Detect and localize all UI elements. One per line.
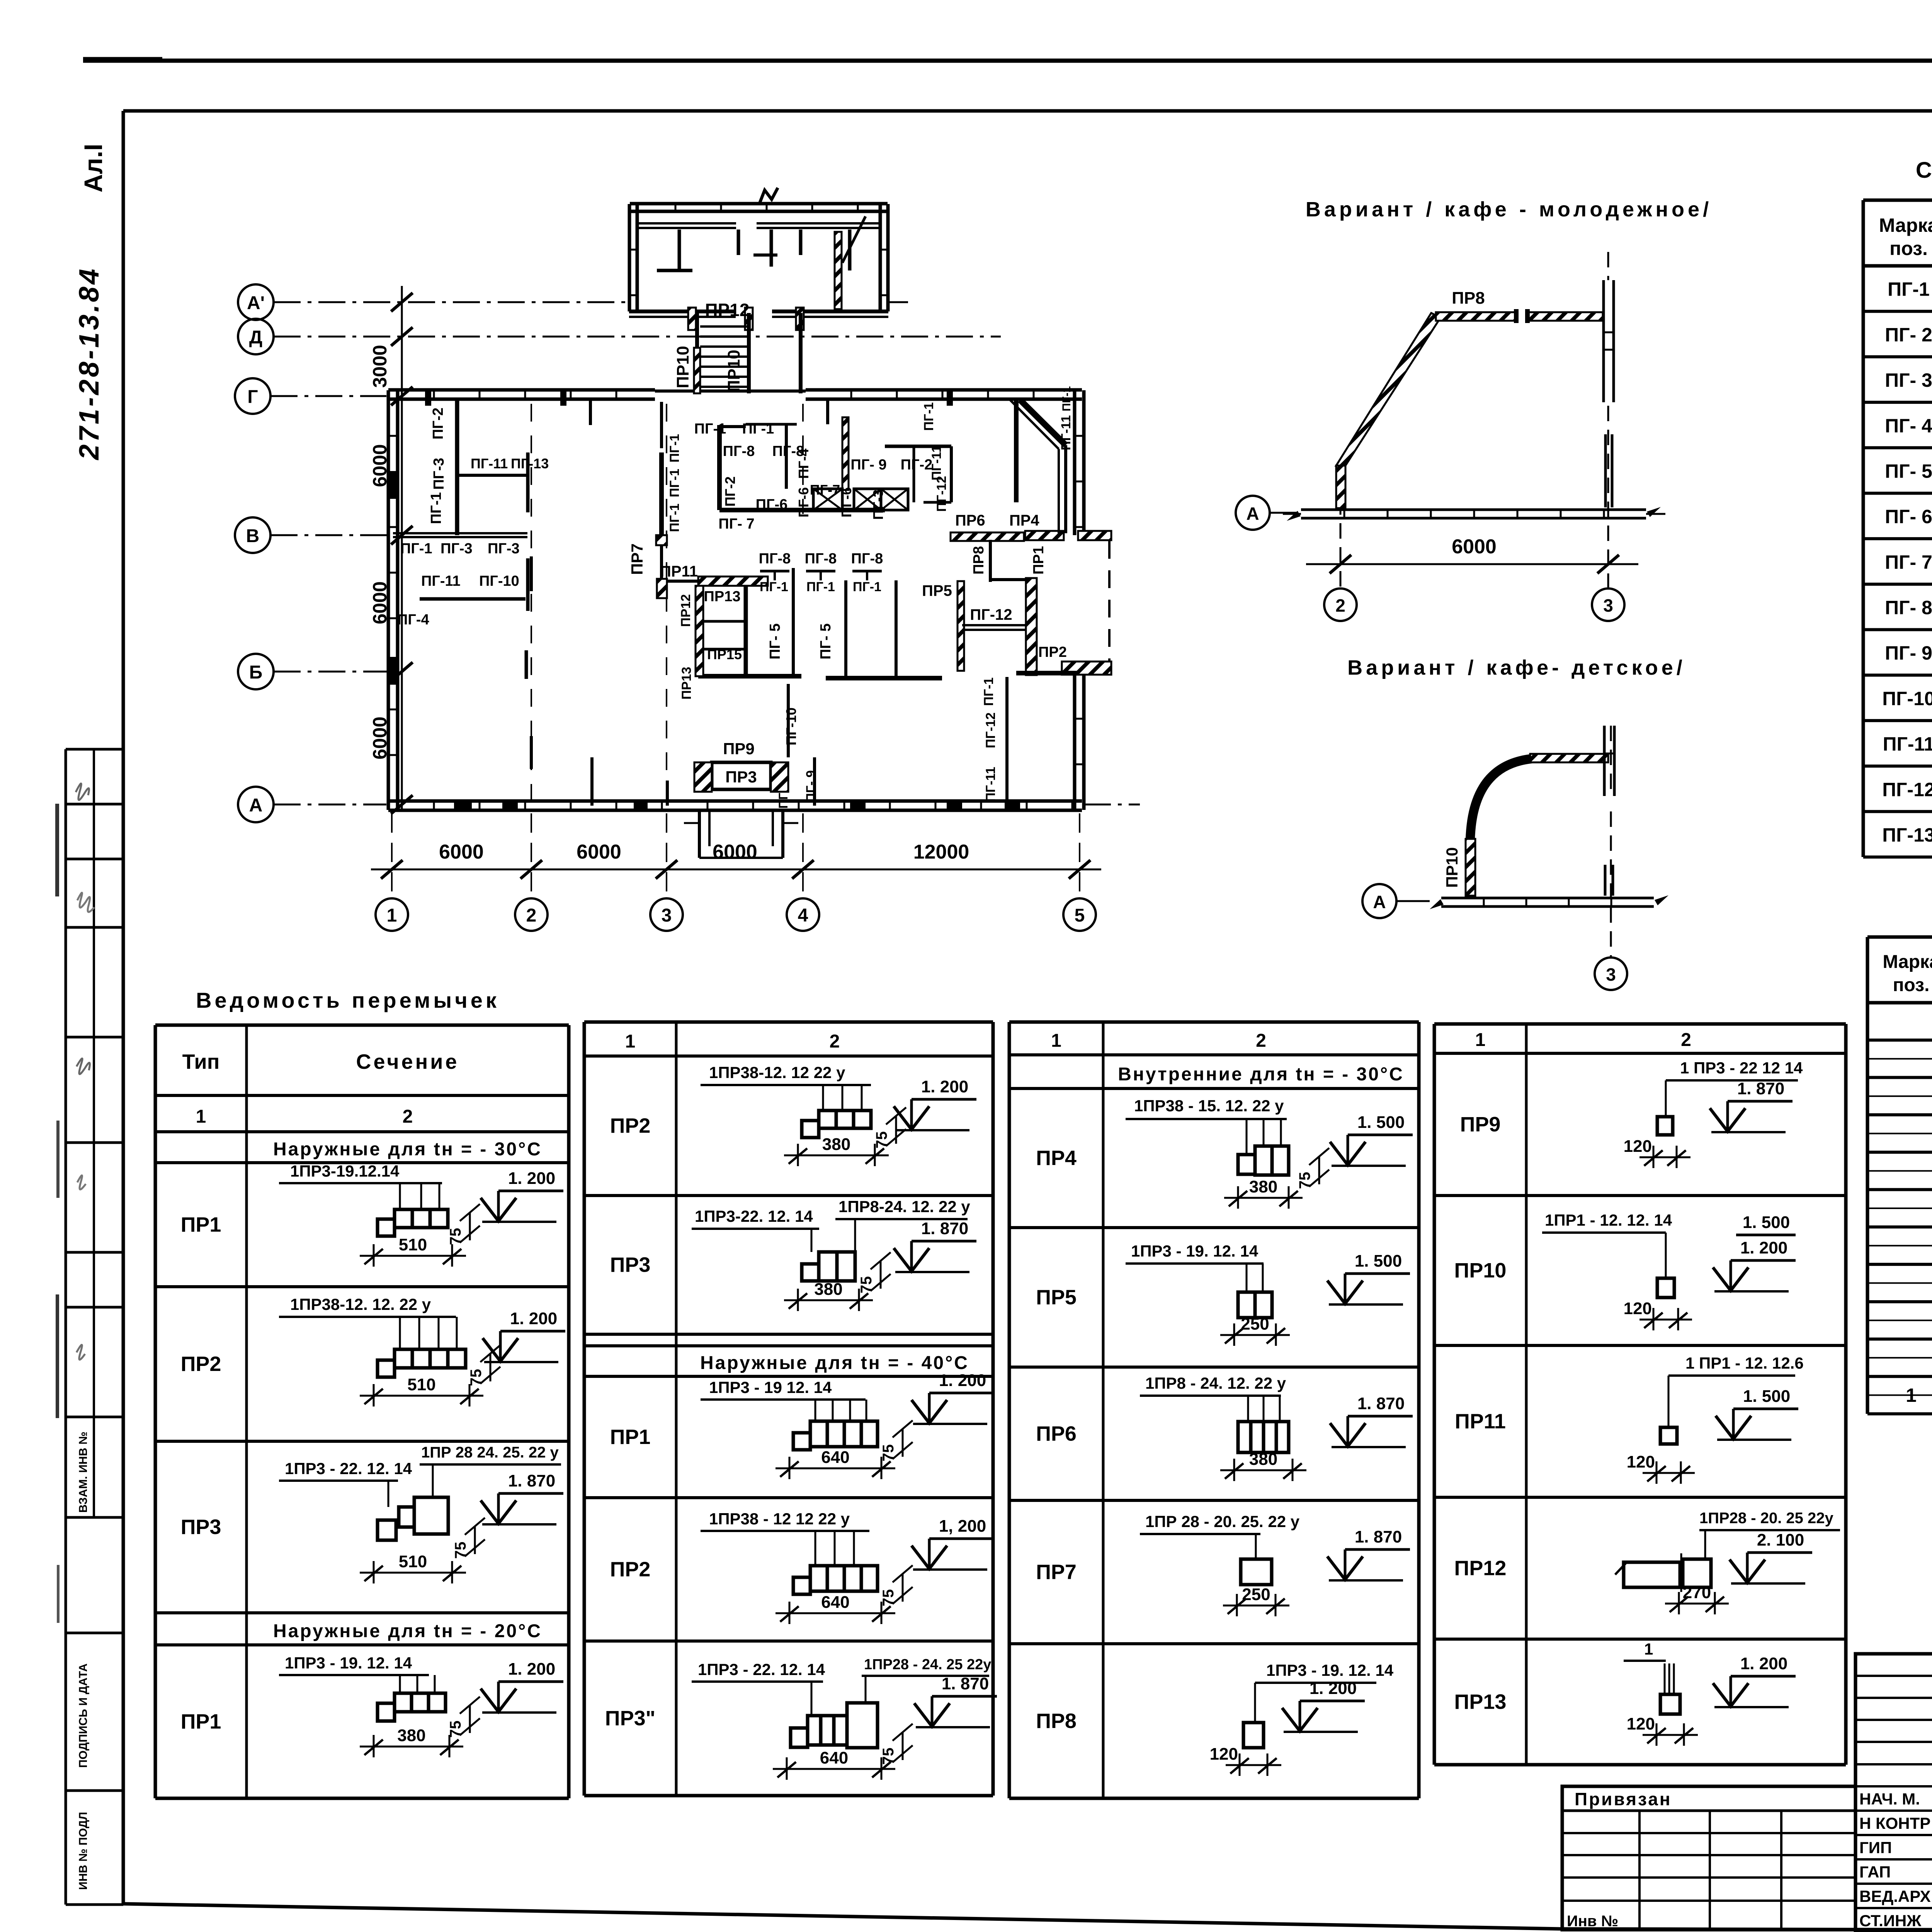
svg-text:ПР3: ПР3: [725, 768, 757, 786]
svg-text:ПГ-1: ПГ-1: [400, 541, 432, 557]
svg-text:Наружные для tн = - 40°С: Наружные для tн = - 40°С: [700, 1353, 969, 1373]
svg-text:ПР13: ПР13: [704, 588, 741, 605]
svg-text:ПР13: ПР13: [1454, 1690, 1507, 1714]
tee door lintels: [760, 570, 789, 573]
svg-text:ПГ- 9: ПГ- 9: [850, 457, 886, 473]
svg-text:640: 640: [821, 1593, 849, 1612]
svg-text:510: 510: [399, 1235, 427, 1254]
svg-text:ПГ-1: ПГ-1: [760, 580, 788, 594]
svg-text:ПГ- 5: ПГ- 5: [767, 623, 783, 659]
svg-text:2. 100: 2. 100: [1757, 1531, 1804, 1549]
svg-text:1: 1: [1906, 1384, 1917, 1406]
small top room near bump: [989, 540, 992, 582]
svg-text:ПР3: ПР3: [610, 1253, 651, 1277]
plan interior: left hall: [455, 399, 459, 535]
svg-text:2: 2: [1681, 1030, 1691, 1050]
svg-text:75: 75: [880, 1748, 897, 1765]
annex corridor wall: [638, 222, 736, 224]
svg-text:ПГ-1: ПГ-1: [806, 580, 835, 594]
svg-text:Марка: Марка: [1883, 952, 1932, 972]
svg-text:1ПР38-12. 12 22 у: 1ПР38-12. 12 22 у: [709, 1063, 845, 1082]
svg-text:Наружные для tн = - 20°С: Наружные для tн = - 20°С: [273, 1621, 542, 1641]
svg-text:ПР8: ПР8: [971, 546, 987, 575]
svg-text:250: 250: [1242, 1585, 1270, 1604]
svg-text:ПГ-10: ПГ-10: [783, 707, 799, 745]
svg-text:Сечение: Сечение: [356, 1050, 459, 1073]
C ПР5 section: [1238, 1292, 1255, 1318]
svg-text:ПР1: ПР1: [181, 1710, 221, 1733]
svg-text:ПР7: ПР7: [628, 543, 646, 575]
svg-text:ИНВ № ПОДЛ: ИНВ № ПОДЛ: [77, 1812, 90, 1890]
column circle 2: [515, 898, 548, 931]
svg-text:ПГ- 2: ПГ- 2: [1885, 324, 1932, 345]
svg-text:1. 500: 1. 500: [1357, 1113, 1405, 1132]
top-right diagonal corner: [1020, 400, 1066, 445]
column circle 5: [1063, 898, 1096, 931]
svg-text:1: 1: [196, 1107, 206, 1127]
svg-text:ПГ-6: ПГ-6: [796, 487, 811, 517]
svg-text:3000: 3000: [369, 345, 391, 388]
svg-text:ПР10: ПР10: [1443, 847, 1461, 888]
corridor horizontal wall (hatched): [698, 577, 768, 586]
svg-text:1. 870: 1. 870: [1355, 1527, 1402, 1546]
svg-text:1ПР8 - 24. 12. 22 у: 1ПР8 - 24. 12. 22 у: [1145, 1374, 1286, 1392]
B ПР1 section -40: [793, 1433, 810, 1450]
axis circle А: [238, 787, 274, 822]
svg-text:ПОДПИСЬ И ДАТА: ПОДПИСЬ И ДАТА: [77, 1663, 90, 1768]
svg-text:ПР12: ПР12: [679, 594, 693, 627]
svg-text:А: А: [249, 795, 263, 816]
axis circle Д: [238, 319, 274, 354]
svg-text:ПГ-2: ПГ-2: [901, 457, 933, 473]
svg-text:4: 4: [798, 905, 808, 926]
svg-text:1ПР3 - 22. 12. 14: 1ПР3 - 22. 12. 14: [698, 1660, 825, 1679]
svg-text:ПР12: ПР12: [1454, 1557, 1507, 1580]
svg-text:1ПР8-24. 12. 22 у: 1ПР8-24. 12. 22 у: [838, 1197, 970, 1216]
svg-text:640: 640: [821, 1448, 849, 1467]
svg-text:ПГ-4: ПГ-4: [796, 449, 811, 479]
axis circle Г: [235, 378, 270, 414]
svg-text:ПГ- 5: ПГ- 5: [818, 623, 834, 659]
svg-text:1ПР 28 24. 25. 22 у: 1ПР 28 24. 25. 22 у: [421, 1444, 559, 1461]
svg-text:ПР5: ПР5: [922, 582, 952, 599]
svg-text:ПГ-8: ПГ-8: [759, 551, 791, 567]
svg-text:1ПР3 - 19 12. 14: 1ПР3 - 19 12. 14: [709, 1378, 832, 1396]
axis circle В: [235, 517, 270, 553]
svg-text:1: 1: [387, 905, 397, 926]
svg-text:Б: Б: [249, 662, 263, 683]
svg-text:ПР1: ПР1: [1031, 546, 1047, 575]
svg-text:ПГ- 8: ПГ- 8: [1885, 597, 1932, 619]
svg-text:1. 200: 1. 200: [510, 1309, 557, 1328]
svg-text:ВЗАМ. ИНВ №: ВЗАМ. ИНВ №: [77, 1432, 90, 1513]
svg-text:ПР1: ПР1: [181, 1213, 221, 1236]
svg-text:2: 2: [1335, 595, 1345, 616]
extra wall stubs: [530, 556, 533, 591]
column circle 4: [787, 898, 819, 931]
svg-text:1. 500: 1. 500: [1743, 1387, 1790, 1406]
svg-text:ПР2: ПР2: [610, 1558, 651, 1581]
svg-text:271-28-13.84: 271-28-13.84: [74, 267, 105, 461]
svg-text:ПГ-2: ПГ-2: [430, 408, 446, 440]
svg-text:ПГ-3: ПГ-3: [431, 458, 447, 490]
svg-text:75: 75: [468, 1369, 485, 1386]
svg-text:СТ.ИНЖ: СТ.ИНЖ: [1859, 1912, 1922, 1930]
svg-text:12000: 12000: [913, 841, 969, 863]
svg-text:ПГ- 9: ПГ- 9: [1885, 642, 1932, 664]
svg-text:ПГ-2: ПГ-2: [722, 476, 738, 507]
svg-text:1ПР3-19.12.14: 1ПР3-19.12.14: [290, 1162, 400, 1180]
svg-text:ПР8: ПР8: [1036, 1709, 1077, 1733]
svg-text:ПГ-12: ПГ-12: [970, 606, 1012, 623]
svg-text:250: 250: [1241, 1315, 1269, 1333]
svg-text:ПГ-13: ПГ-13: [511, 456, 549, 471]
ведомость sub-table 4 grid: [1434, 1022, 1846, 1026]
svg-text:1. 200: 1. 200: [508, 1660, 555, 1679]
ведомость sub-table 1 grid: [155, 1024, 569, 1027]
svg-text:поз.: поз.: [1889, 238, 1928, 259]
svg-text:1. 200: 1. 200: [921, 1077, 968, 1096]
svg-text:ПГ-11: ПГ-11: [471, 456, 508, 471]
svg-text:1. 200: 1. 200: [939, 1371, 986, 1390]
svg-text:ПР6: ПР6: [955, 512, 985, 529]
small room with ПР13/ПР15: [696, 586, 703, 676]
ПР1 section -30: [378, 1219, 395, 1236]
svg-text:ПГ- 7: ПГ- 7: [718, 516, 754, 532]
svg-text:ПГ-13: ПГ-13: [1882, 824, 1932, 846]
bottom dimension chain: [371, 869, 1101, 871]
bottom right rooms: [1005, 677, 1009, 806]
pencil marks in stamp boxes: [76, 784, 89, 800]
column circle 3: [650, 898, 683, 931]
svg-text:3: 3: [1603, 595, 1613, 616]
right room long wall: [1014, 399, 1019, 502]
svg-text:ПР9: ПР9: [723, 740, 755, 758]
svg-text:1: 1: [1051, 1031, 1061, 1051]
svg-text:6000: 6000: [439, 841, 484, 863]
svg-text:ПГ-3: ПГ-3: [870, 490, 886, 520]
svg-text:ПГ-12: ПГ-12: [983, 713, 998, 748]
svg-text:1. 200: 1. 200: [1310, 1679, 1357, 1698]
svg-text:ПГ-11: ПГ-11: [929, 446, 944, 481]
svg-text:5: 5: [1075, 905, 1085, 926]
svg-text:ПР4: ПР4: [1009, 512, 1039, 529]
svg-text:ПГ-1: ПГ-1: [853, 580, 881, 594]
svg-text:Г: Г: [247, 387, 258, 407]
svg-text:1. 200: 1. 200: [1740, 1654, 1787, 1673]
svg-text:6000: 6000: [1452, 536, 1497, 558]
svg-text:ПР9: ПР9: [1460, 1113, 1501, 1136]
svg-text:Ведомость перемычек: Ведомость перемычек: [196, 988, 500, 1012]
svg-text:1: 1: [1475, 1030, 1486, 1050]
svg-text:Инв №: Инв №: [1567, 1913, 1618, 1930]
svg-text:ПР6: ПР6: [1036, 1422, 1077, 1446]
svg-text:1: 1: [625, 1031, 636, 1052]
C ПР6 section: [1238, 1422, 1251, 1452]
svg-text:120: 120: [1627, 1714, 1655, 1733]
svg-text:380: 380: [1249, 1450, 1277, 1469]
svg-text:ПГ-8: ПГ-8: [851, 551, 883, 567]
sheet top edge line: [83, 59, 1932, 63]
svg-text:75: 75: [1296, 1172, 1313, 1189]
svg-text:ПР11: ПР11: [660, 563, 698, 580]
svg-text:ПР10: ПР10: [673, 346, 692, 388]
svg-text:Вариант / кафе- детское/: Вариант / кафе- детское/: [1347, 656, 1686, 679]
svg-text:380: 380: [814, 1280, 842, 1299]
svg-text:75: 75: [880, 1444, 897, 1462]
svg-text:НАЧ. М.: НАЧ. М.: [1859, 1790, 1920, 1808]
annex partitions: [678, 230, 681, 270]
svg-text:ПГ-10: ПГ-10: [479, 573, 519, 589]
svg-text:ГАП: ГАП: [1859, 1863, 1891, 1881]
В wall right segments: [951, 532, 1024, 541]
svg-text:510: 510: [399, 1552, 427, 1571]
svg-text:ПГ- 3: ПГ- 3: [1885, 369, 1932, 391]
svg-text:510: 510: [407, 1375, 435, 1394]
svg-text:А: А: [1246, 503, 1259, 524]
variant 1 axes 2 and 3: [1340, 475, 1342, 587]
svg-text:1. 870: 1. 870: [1737, 1079, 1784, 1098]
variant 2 wall А: [1441, 897, 1654, 900]
svg-text:6000: 6000: [713, 841, 757, 863]
svg-text:1ПР38 - 15. 12. 22 у: 1ПР38 - 15. 12. 22 у: [1134, 1097, 1284, 1115]
variant 2 axis 3: [1610, 726, 1612, 796]
axis circle А-prime: [238, 284, 274, 320]
svg-text:1ПР38-12. 12. 22 у: 1ПР38-12. 12. 22 у: [290, 1295, 431, 1313]
svg-text:Привязан: Привязан: [1575, 1789, 1672, 1809]
washroom block: [717, 425, 722, 510]
svg-text:ПГ-1: ПГ-1: [981, 677, 996, 706]
svg-text:1. 870: 1. 870: [921, 1219, 968, 1238]
svg-text:ПГ-3: ПГ-3: [440, 541, 473, 557]
annex door swing: [842, 216, 866, 263]
svg-text:1. 870: 1. 870: [508, 1471, 555, 1490]
C ПР7 section: [1241, 1559, 1272, 1585]
svg-text:1ПР3-22. 12. 14: 1ПР3-22. 12. 14: [695, 1207, 813, 1225]
svg-text:ПР2: ПР2: [1038, 644, 1067, 660]
D ПР11 section: [1660, 1427, 1677, 1444]
svg-text:ПР7: ПР7: [1036, 1561, 1077, 1584]
svg-text:2: 2: [526, 905, 537, 926]
svg-text:ПР10: ПР10: [1454, 1259, 1507, 1282]
svg-text:ПР8: ПР8: [1452, 289, 1485, 308]
stair treads: [700, 325, 747, 328]
svg-text:640: 640: [820, 1748, 848, 1767]
svg-text:ПР3: ПР3: [181, 1515, 221, 1539]
ПР3 section: [378, 1520, 396, 1540]
svg-text:ПГ-6: ПГ-6: [838, 487, 854, 517]
corridor wall col3: [659, 452, 664, 535]
svg-text:А: А: [1373, 892, 1386, 912]
ПР1 section -20: [378, 1703, 395, 1721]
svg-text:120: 120: [1624, 1137, 1652, 1156]
svg-text:1: 1: [1644, 1640, 1653, 1658]
left margin stamp column: [65, 749, 67, 1905]
variant 1 wall А: [1301, 509, 1646, 511]
ПР2 section: [378, 1360, 395, 1377]
column circle 1: [376, 898, 408, 931]
svg-text:ПГ-1: ПГ-1: [694, 421, 726, 437]
svg-text:ПР2: ПР2: [181, 1352, 221, 1376]
svg-text:ПГ-7: ПГ-7: [810, 482, 840, 498]
svg-text:ПР2: ПР2: [610, 1114, 651, 1138]
svg-text:1ПР28 - 20. 25 22у: 1ПР28 - 20. 25 22у: [1699, 1510, 1834, 1527]
variant 2 col3 wall above: [1603, 726, 1606, 796]
center rooms below corridor: [792, 568, 795, 676]
C ПР8 section: [1243, 1723, 1264, 1748]
svg-text:120: 120: [1627, 1452, 1655, 1471]
svg-text:6000: 6000: [577, 841, 621, 863]
svg-text:Внутренние для tн = - 30°С: Внутренние для tн = - 30°С: [1118, 1064, 1404, 1085]
svg-text:поз.: поз.: [1893, 975, 1930, 995]
drawing frame: [123, 109, 1932, 113]
variant 2 partition: vertical + quarter arc + horizontal: [1466, 839, 1475, 896]
left edge scan noise strip: [55, 804, 59, 896]
B ПР2 section: [802, 1121, 819, 1138]
ведомость sub-table 3 grid: [1009, 1020, 1419, 1024]
svg-text:ПГ- 9: ПГ- 9: [804, 770, 818, 802]
variant 1 axis А: [1236, 496, 1270, 530]
axis circle Б: [238, 654, 274, 689]
svg-text:ПГ-8: ПГ-8: [805, 551, 837, 567]
svg-text:1ПР3 - 19. 12. 14: 1ПР3 - 19. 12. 14: [1131, 1242, 1259, 1260]
svg-text:ПР1: ПР1: [610, 1425, 651, 1449]
svg-text:Тип: Тип: [182, 1050, 220, 1073]
svg-text:ПГ-1: ПГ-1: [742, 421, 774, 437]
svg-text:380: 380: [397, 1726, 425, 1745]
svg-text:Наружные для tн = - 30°С: Наружные для tн = - 30°С: [273, 1139, 542, 1160]
svg-text:ПГ-11: ПГ-11: [1059, 415, 1073, 451]
привязан table: [1562, 1786, 1855, 1930]
svg-text:ПГ-11: ПГ-11: [983, 767, 998, 802]
svg-text:ПР4: ПР4: [1036, 1146, 1077, 1170]
annex bottom columns (hatched): [688, 308, 696, 330]
svg-text:ПГ-1: ПГ-1: [922, 402, 936, 431]
svg-text:Н КОНТР: Н КОНТР: [1859, 1814, 1930, 1832]
svg-text:1. 200: 1. 200: [1740, 1238, 1787, 1257]
north mark: [759, 188, 778, 204]
svg-text:ПГ-11: ПГ-11: [1883, 733, 1932, 755]
C ПР4 section: [1238, 1155, 1255, 1174]
svg-text:1. 500: 1. 500: [1355, 1252, 1402, 1270]
svg-text:Ал.I: Ал.I: [79, 144, 107, 192]
svg-text:ПГ-1: ПГ-1: [428, 492, 444, 524]
outer wall Г (top): [388, 388, 655, 392]
svg-text:ПР13: ПР13: [679, 667, 694, 700]
outer wall А (bottom): [388, 799, 1082, 803]
svg-text:1 ПР1 - 12. 12.6: 1 ПР1 - 12. 12.6: [1685, 1354, 1804, 1372]
svg-text:ВЕД.АРХ: ВЕД.АРХ: [1859, 1887, 1931, 1905]
svg-text:ПГ-1: ПГ-1: [1060, 386, 1073, 411]
svg-text:1, 200: 1, 200: [939, 1517, 986, 1536]
svg-text:120: 120: [1624, 1299, 1652, 1318]
svg-text:1ПР3 - 22. 12. 14: 1ПР3 - 22. 12. 14: [285, 1459, 412, 1478]
variant 1 dimension: [1306, 563, 1638, 565]
column axis dashes through plan: [531, 404, 532, 800]
D ПР10 section: [1657, 1278, 1674, 1298]
svg-text:1 ПР3 - 22 12 14: 1 ПР3 - 22 12 14: [1680, 1059, 1803, 1077]
svg-text:ПГ-1: ПГ-1: [1888, 279, 1930, 300]
svg-text:1ПР 28 - 20. 25. 22 у: 1ПР 28 - 20. 25. 22 у: [1145, 1512, 1300, 1531]
svg-text:ПГ-3: ПГ-3: [488, 541, 520, 557]
svg-text:ПР12: ПР12: [705, 300, 750, 320]
svg-text:Д: Д: [249, 327, 262, 348]
svg-text:270: 270: [1683, 1583, 1711, 1602]
svg-text:ПР5: ПР5: [1036, 1286, 1077, 1309]
svg-text:2: 2: [830, 1031, 840, 1052]
svg-text:ПГ-6: ПГ-6: [756, 497, 788, 513]
svg-text:1ПР1 - 12. 12. 14: 1ПР1 - 12. 12. 14: [1545, 1211, 1672, 1229]
outer wall col1 (left): [387, 390, 390, 810]
svg-text:3: 3: [1606, 964, 1616, 985]
svg-text:ПГ-8: ПГ-8: [723, 443, 755, 459]
svg-text:75: 75: [447, 1721, 464, 1738]
svg-text:2: 2: [403, 1107, 413, 1127]
D ПР12 section: [1624, 1562, 1680, 1587]
svg-text:380: 380: [1249, 1177, 1277, 1196]
D ПР13 section: [1660, 1694, 1680, 1714]
svg-text:А': А': [247, 293, 265, 313]
annex outer walls: [628, 204, 631, 311]
svg-text:Марка: Марка: [1879, 214, 1932, 236]
svg-text:ПГ- 5: ПГ- 5: [1885, 460, 1932, 482]
svg-text:120: 120: [1210, 1745, 1238, 1764]
lower center stubs: [787, 684, 790, 757]
svg-text:ПГ- 7: ПГ- 7: [1885, 551, 1932, 573]
svg-text:1. 870: 1. 870: [942, 1674, 989, 1693]
svg-text:75: 75: [880, 1589, 897, 1607]
svg-text:ПГ- 4: ПГ- 4: [1885, 415, 1932, 437]
svg-text:ПР3": ПР3": [605, 1707, 655, 1730]
svg-text:ПГ- 6: ПГ- 6: [1885, 506, 1932, 527]
title block: [1855, 1654, 1932, 1931]
svg-text:В: В: [246, 526, 260, 546]
svg-text:1. 500: 1. 500: [1743, 1213, 1790, 1232]
svg-text:ПГ-12: ПГ-12: [1882, 779, 1932, 800]
svg-text:1. 870: 1. 870: [1357, 1394, 1405, 1413]
svg-text:75: 75: [452, 1542, 469, 1559]
svg-text:380: 380: [822, 1135, 850, 1154]
svg-text:ПР11: ПР11: [1455, 1410, 1506, 1433]
B ПР2 section -40: [793, 1577, 810, 1594]
B ПР3dbl section: [791, 1728, 808, 1747]
svg-text:2: 2: [1256, 1031, 1266, 1051]
svg-text:Вариант / кафе - молодежное/: Вариант / кафе - молодежное/: [1306, 198, 1712, 221]
svg-text:Спецификация злементов гип: Спецификация злементов гипсобетонных пер…: [1916, 158, 1932, 183]
svg-text:ПГ-1: ПГ-1: [667, 503, 682, 532]
ведомость sub-table 2 grid: [584, 1020, 993, 1024]
D ПР9 section: [1657, 1117, 1673, 1135]
vertical dimension chain: [401, 286, 403, 811]
outer wall col5 (right): [1073, 390, 1077, 535]
svg-text:1ПР38 - 12 12 22 у: 1ПР38 - 12 12 22 у: [709, 1510, 850, 1528]
variant 1 partition: vertical + diagonal + horizontal hatched: [1336, 466, 1345, 508]
svg-text:75: 75: [858, 1276, 875, 1294]
svg-text:75: 75: [447, 1228, 464, 1245]
svg-text:1ПР3 - 19. 12. 14: 1ПР3 - 19. 12. 14: [285, 1654, 412, 1672]
svg-text:75: 75: [873, 1131, 890, 1149]
hatched walls right rooms: [1026, 578, 1037, 675]
svg-text:ПГ-11: ПГ-11: [421, 573, 461, 589]
variant 1 col3 wall above: [1602, 280, 1605, 402]
axis lines: [274, 301, 630, 303]
right bump between В and Б: [1025, 531, 1064, 540]
svg-text:ПР10: ПР10: [724, 350, 743, 392]
svg-text:ПР15: ПР15: [707, 646, 742, 662]
svg-text:1ПР3 - 19. 12. 14: 1ПР3 - 19. 12. 14: [1266, 1661, 1394, 1679]
svg-text:ПГ-10: ПГ-10: [1882, 688, 1932, 709]
svg-text:1ПР28 - 24. 25 22у: 1ПР28 - 24. 25 22у: [864, 1656, 991, 1673]
